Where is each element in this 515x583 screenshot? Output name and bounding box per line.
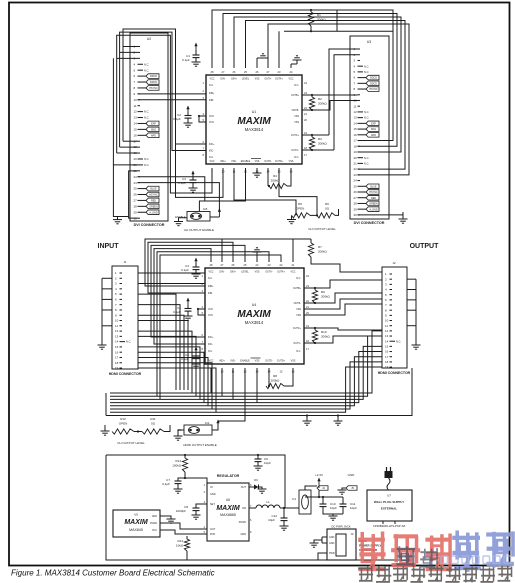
wire power rail loop <box>106 455 412 560</box>
svg-text:VCC: VCC <box>209 160 214 163</box>
svg-text:INC-: INC- <box>209 150 214 153</box>
svg-text:N.C.: N.C. <box>126 340 131 344</box>
svg-text:N.C.: N.C. <box>294 156 299 159</box>
svg-text:MAXIM: MAXIM <box>237 309 271 320</box>
svg-text:J1: J1 <box>123 260 127 264</box>
svg-text:200kΩ: 200kΩ <box>321 335 331 339</box>
svg-text:SNG: SNG <box>151 128 156 131</box>
svg-text:N.C.: N.C. <box>296 277 301 280</box>
svg-text:VCC: VCC <box>209 121 214 124</box>
svg-text:VCC: VCC <box>290 271 295 274</box>
svg-text:DIN+: DIN+ <box>231 78 237 81</box>
svg-text:19: 19 <box>385 365 389 369</box>
resistor R14 10k <box>176 536 190 560</box>
svg-text:DDCD: DDCD <box>150 75 157 78</box>
ground below bundle <box>303 414 312 425</box>
svg-text:J2: J2 <box>392 261 396 265</box>
svg-text:U1: U1 <box>252 110 257 114</box>
svg-text:R3: R3 <box>318 137 322 141</box>
svg-text:PGND: PGND <box>239 521 246 524</box>
svg-text:U2: U2 <box>147 37 151 41</box>
svg-text:DC PWR JACK: DC PWR JACK <box>331 525 350 529</box>
diode D3 <box>249 478 267 493</box>
svg-text:VCC: VCC <box>209 78 214 81</box>
svg-text:11: 11 <box>385 324 388 328</box>
svg-text:HSYNC: HSYNC <box>149 87 158 90</box>
svg-text:EXP: EXP <box>151 123 156 126</box>
svg-text:CH OUTPUT LEVEL: CH OUTPUT LEVEL <box>308 227 336 231</box>
svg-text:11: 11 <box>354 104 357 108</box>
svg-text:ENABLE: ENABLE <box>240 360 250 363</box>
svg-text:11: 11 <box>115 324 118 328</box>
resistor R3 200k <box>302 134 328 151</box>
svg-text:HDMI CONNECTOR: HDMI CONNECTOR <box>109 372 142 376</box>
wire bus left of U2 <box>113 29 223 218</box>
connector U2 DVI <box>130 33 168 227</box>
svg-text:0.1µF: 0.1µF <box>173 117 181 121</box>
svg-text:U7: U7 <box>387 494 391 498</box>
svg-text:SNG: SNG <box>371 128 376 131</box>
svg-text:OUTC-: OUTC- <box>291 149 299 152</box>
svg-text:VSS: VSS <box>255 160 260 163</box>
svg-text:VSS: VSS <box>296 308 301 311</box>
svg-text:U3: U3 <box>367 40 371 44</box>
svg-text:J3: J3 <box>351 532 354 536</box>
svg-text:HSYNC: HSYNC <box>369 191 378 194</box>
svg-text:10: 10 <box>115 319 119 323</box>
svg-text:VSS: VSS <box>294 121 299 124</box>
svg-text:U4: U4 <box>252 303 257 307</box>
LED D1 <box>292 486 317 514</box>
svg-text:DIN-: DIN- <box>220 271 225 274</box>
svg-text:APD: APD <box>371 134 376 137</box>
svg-text:26: 26 <box>354 190 358 194</box>
svg-text:GND: GND <box>348 473 356 477</box>
svg-text:A_GND: A_GND <box>369 208 378 211</box>
wire return bundle <box>110 331 382 412</box>
resistor R9 200k <box>304 287 331 304</box>
resistor R6 0ohm <box>310 202 339 218</box>
ground above U1 right <box>291 56 302 68</box>
terminal J5 GND <box>338 473 358 494</box>
svg-text:17: 17 <box>385 355 389 359</box>
connector U3 DVI <box>350 36 389 225</box>
svg-text:SET: SET <box>210 503 215 506</box>
svg-text:Figure 1. MAX3814 Customer Boa: Figure 1. MAX3814 Customer Board Electri… <box>11 569 215 578</box>
svg-text:JU2: JU2 <box>205 421 210 425</box>
svg-text:17: 17 <box>354 139 358 143</box>
ground above U4 <box>253 248 262 262</box>
resistor R7 200k <box>308 239 382 272</box>
plug P1 <box>385 467 393 490</box>
ground at R5 <box>287 215 336 231</box>
svg-text:23: 23 <box>134 175 138 179</box>
svg-text:VSS: VSS <box>255 360 260 363</box>
capacitor C11 10uF <box>329 497 358 520</box>
svg-text:VSS: VSS <box>296 314 301 317</box>
svg-text:27: 27 <box>354 196 358 200</box>
svg-text:+3.3V: +3.3V <box>315 473 323 477</box>
svg-text:CH OUTPUT ENABLE: CH OUTPUT ENABLE <box>184 228 214 232</box>
svg-text:12: 12 <box>354 110 358 114</box>
capacitor C4 0.1uF <box>181 258 200 279</box>
svg-text:N.C.: N.C. <box>296 350 301 353</box>
svg-text:HDMI CONNECTOR: HDMI CONNECTOR <box>378 371 411 375</box>
ground below U3 <box>399 212 408 223</box>
svg-text:DVI CONNECTOR: DVI CONNECTOR <box>134 223 165 227</box>
svg-text:VCC: VCC <box>208 314 213 317</box>
svg-text:HSYNC: HSYNC <box>369 88 378 91</box>
resistor R2 200k <box>302 94 328 111</box>
svg-text:WALL PLUG SUPPLY: WALL PLUG SUPPLY <box>374 500 404 504</box>
svg-text:N.C.: N.C. <box>364 162 369 166</box>
capacitor C2 0.1uF <box>173 106 206 128</box>
svg-text:OUTD+: OUTD+ <box>277 360 286 363</box>
svg-text:OUTD-: OUTD- <box>264 160 272 163</box>
svg-text:MAX8865: MAX8865 <box>220 513 236 517</box>
svg-text:24: 24 <box>134 181 138 185</box>
svg-text:R1: R1 <box>317 13 321 17</box>
svg-text:INPUT: INPUT <box>98 243 120 250</box>
svg-text:15: 15 <box>115 345 119 349</box>
svg-text:27: 27 <box>134 199 138 203</box>
resistor R4 200k <box>268 168 291 189</box>
svg-text:REGULATOR: REGULATOR <box>217 474 240 478</box>
svg-text:GREEN: GREEN <box>369 203 378 206</box>
connector J1 HDMI <box>109 260 142 376</box>
svg-text:25: 25 <box>354 184 358 188</box>
capacitor C9 10uF <box>254 454 272 470</box>
resistor R13 100k <box>172 454 187 479</box>
svg-text:N.C.: N.C. <box>396 339 401 343</box>
capacitor C1 0.1uF <box>182 43 200 67</box>
svg-text:OUTPUT: OUTPUT <box>410 243 440 250</box>
svg-text:200kΩ: 200kΩ <box>318 102 328 106</box>
svg-text:IND+: IND+ <box>220 160 226 163</box>
svg-text:19: 19 <box>115 366 119 370</box>
svg-text:14: 14 <box>134 122 138 126</box>
svg-text:200kΩ: 200kΩ <box>271 179 281 183</box>
ground left of J1 <box>98 278 113 349</box>
ground below U2 <box>113 217 122 224</box>
svg-text:IN: IN <box>210 486 213 489</box>
svg-text:ENABLE: ENABLE <box>175 215 186 219</box>
svg-text:VCC: VCC <box>208 271 213 274</box>
svg-text:OUTA-: OUTA- <box>265 271 272 274</box>
svg-text:18: 18 <box>354 144 358 148</box>
svg-text:OUTA-: OUTA- <box>264 78 271 81</box>
svg-text:0.1µF: 0.1µF <box>162 482 170 486</box>
svg-text:18: 18 <box>385 360 389 364</box>
svg-text:29: 29 <box>134 210 138 214</box>
capacitor C10 10uF <box>305 496 343 514</box>
svg-text:10: 10 <box>354 99 358 103</box>
svg-text:0.1µF: 0.1µF <box>178 181 186 185</box>
resistor R10 200k <box>304 327 331 344</box>
svg-text:LEVEL: LEVEL <box>242 78 250 81</box>
svg-text:24: 24 <box>354 179 358 183</box>
wire U5 to rail <box>166 523 207 534</box>
ground below bundle right <box>334 414 343 425</box>
svg-text:R5: R5 <box>298 202 302 206</box>
svg-text:12: 12 <box>134 110 138 114</box>
svg-text:OUTB-: OUTB- <box>292 109 300 112</box>
connector J3 power jack <box>310 525 357 561</box>
svg-text:PGND: PGND <box>150 522 157 525</box>
ground above U1 pin VSS <box>257 54 268 68</box>
svg-text:10kΩ: 10kΩ <box>176 544 184 548</box>
svg-text:25: 25 <box>134 187 138 191</box>
svg-text:22: 22 <box>354 167 358 171</box>
svg-text:20: 20 <box>134 157 138 161</box>
svg-text:MAX3814: MAX3814 <box>245 320 264 325</box>
wire J1 to U4 <box>138 273 216 412</box>
svg-text:28: 28 <box>354 202 358 206</box>
svg-text:0.1µF: 0.1µF <box>182 58 190 62</box>
inductor L1 <box>249 500 296 509</box>
svg-text:HSYNC: HSYNC <box>149 194 158 197</box>
svg-text:INB+: INB+ <box>209 92 215 95</box>
svg-text:17: 17 <box>115 356 119 360</box>
svg-text:10: 10 <box>134 98 138 102</box>
svg-text:14: 14 <box>354 121 358 125</box>
svg-text:12: 12 <box>385 329 389 333</box>
capacitor C6 0.1uF <box>181 347 200 369</box>
svg-text:OUTC+: OUTC+ <box>291 134 300 137</box>
svg-text:POK: POK <box>210 533 216 536</box>
svg-text:OUT: OUT <box>210 528 216 531</box>
svg-text:200kΩ: 200kΩ <box>321 295 331 299</box>
svg-text:R12: R12 <box>120 417 126 421</box>
svg-text:U6: U6 <box>226 498 230 502</box>
svg-text:OUTC-: OUTC- <box>293 342 301 345</box>
svg-text:A_GND: A_GND <box>149 211 158 214</box>
svg-text:14: 14 <box>385 339 389 343</box>
svg-text:MAXIM: MAXIM <box>216 505 240 512</box>
wire U4 to J2 <box>304 280 382 343</box>
svg-text:VSS: VSS <box>289 160 294 163</box>
svg-text:12: 12 <box>115 329 119 333</box>
svg-text:100kΩ: 100kΩ <box>172 464 182 468</box>
svg-text:DVI CONNECTOR: DVI CONNECTOR <box>354 221 385 225</box>
svg-text:N.C.: N.C. <box>294 84 299 87</box>
svg-text:VSS: VSS <box>294 115 299 118</box>
svg-text:DDCD: DDCD <box>370 82 377 85</box>
svg-text:INB-: INB- <box>208 292 213 295</box>
jumper JU2 HDMI OUTPUT ENABLE <box>174 420 220 448</box>
svg-text:10µF: 10µF <box>268 518 275 522</box>
svg-text:OPEN: OPEN <box>119 422 128 426</box>
svg-text:N.C.: N.C. <box>144 157 149 161</box>
svg-text:BLUE: BLUE <box>370 185 377 188</box>
svg-text:R4: R4 <box>273 174 277 178</box>
resistor R8 200k <box>266 368 293 389</box>
svg-text:MAX845: MAX845 <box>129 528 143 532</box>
svg-text:R8: R8 <box>273 374 277 378</box>
wire top loop from U1 to U3 <box>212 10 409 99</box>
svg-text:GND: GND <box>329 536 335 539</box>
svg-text:DDCD: DDCD <box>150 81 157 84</box>
svg-text:OUTB+: OUTB+ <box>293 287 302 290</box>
svg-text:GND: GND <box>210 493 216 496</box>
svg-text:29: 29 <box>354 207 358 211</box>
wire U1 bottom pins <box>234 168 317 215</box>
svg-text:19: 19 <box>354 150 358 154</box>
svg-text:D1: D1 <box>292 497 296 501</box>
svg-text:INB-: INB- <box>209 99 214 102</box>
svg-text:VCC: VCC <box>152 529 157 532</box>
svg-text:EXTERNAL: EXTERNAL <box>381 507 397 511</box>
svg-text:200kΩ: 200kΩ <box>271 379 281 383</box>
svg-text:1000pF: 1000pF <box>176 509 186 513</box>
svg-text:U5: U5 <box>134 513 138 517</box>
svg-text:VSS: VSS <box>255 271 260 274</box>
svg-text:N.C.: N.C. <box>209 156 214 159</box>
svg-text:DDCD: DDCD <box>370 77 377 80</box>
svg-text:VCC: VCC <box>288 78 293 81</box>
svg-text:OUTC+: OUTC+ <box>293 327 302 330</box>
svg-text:R11: R11 <box>150 417 156 421</box>
svg-text:LEVEL: LEVEL <box>241 271 249 274</box>
op-amp U1 MAX3814 <box>203 70 308 174</box>
svg-text:OUTA+: OUTA+ <box>277 271 285 274</box>
svg-text:OUTB+: OUTB+ <box>291 94 300 97</box>
svg-text:DIN-: DIN- <box>221 78 226 81</box>
resistor R5 OPEN <box>292 202 311 218</box>
svg-text:MAXIM: MAXIM <box>237 116 271 127</box>
svg-text:N.C.: N.C. <box>144 116 149 120</box>
svg-text:APD: APD <box>151 134 156 137</box>
ground right of J2 <box>407 279 421 349</box>
capacitor C3 0.1uF <box>178 171 197 193</box>
svg-text:D3: D3 <box>254 478 258 482</box>
svg-text:15: 15 <box>134 127 138 131</box>
svg-text:13: 13 <box>385 334 389 338</box>
wire U4 bottom pins <box>211 368 257 421</box>
svg-text:18: 18 <box>115 361 119 365</box>
svg-text:EXP: EXP <box>371 122 376 125</box>
label WALL POWER SUPPLY CONNECTOR <box>359 539 381 552</box>
svg-text:IND-: IND- <box>231 360 236 363</box>
svg-text:CP30B3000-LPS-PSP-SZ: CP30B3000-LPS-PSP-SZ <box>373 524 406 528</box>
svg-text:IND+: IND+ <box>219 360 225 363</box>
svg-text:23: 23 <box>354 173 358 177</box>
svg-text:14: 14 <box>115 340 119 344</box>
svg-text:21: 21 <box>354 162 358 166</box>
svg-text:R14: R14 <box>177 539 183 543</box>
svg-text:MAXIM: MAXIM <box>124 519 148 526</box>
svg-text:VCC: VCC <box>208 360 213 363</box>
svg-text:26: 26 <box>134 193 138 197</box>
svg-text:GREEN: GREEN <box>149 205 158 208</box>
svg-text:BLUE: BLUE <box>150 188 157 191</box>
svg-text:13: 13 <box>354 116 358 120</box>
regulator U6 MAX8865 <box>204 474 252 541</box>
svg-text:IN2: IN2 <box>242 507 247 510</box>
svg-text:JU5: JU5 <box>203 207 208 211</box>
svg-text:INB+: INB+ <box>208 285 214 288</box>
svg-text:N.C.: N.C. <box>144 110 149 114</box>
capacitor C5 0.1uF <box>173 298 205 321</box>
svg-text:10µF: 10µF <box>264 461 271 465</box>
svg-text:R13: R13 <box>175 459 181 463</box>
svg-text:OUTB-: OUTB- <box>294 302 302 305</box>
power supply U7 <box>367 490 412 528</box>
svg-text:16: 16 <box>385 350 389 354</box>
svg-text:200kΩ: 200kΩ <box>317 18 327 22</box>
svg-text:GND: GND <box>152 515 158 518</box>
svg-text:0.1µF: 0.1µF <box>181 268 189 272</box>
wire U1 outputs to U3 <box>312 95 358 150</box>
svg-text:N.C.: N.C. <box>209 84 214 87</box>
resistor R11 0ohm <box>117 417 170 445</box>
svg-text:N.C.: N.C. <box>364 110 369 114</box>
svg-text:16: 16 <box>115 350 119 354</box>
jumper JU1 CH OUTPUT ENABLE <box>174 168 246 232</box>
svg-text:GND: GND <box>329 542 335 545</box>
svg-text:VSS: VSS <box>255 78 260 81</box>
svg-text:N.C.: N.C. <box>144 163 149 167</box>
svg-text:R10: R10 <box>321 330 327 334</box>
svg-text:RED: RED <box>151 200 156 203</box>
svg-text:DIN+: DIN+ <box>230 271 236 274</box>
watermark <box>358 531 515 583</box>
svg-text:10µF: 10µF <box>350 506 357 510</box>
svg-text:N.C.: N.C. <box>144 68 149 72</box>
svg-text:R2: R2 <box>318 97 322 101</box>
svg-text:GND: GND <box>240 533 246 536</box>
svg-text:ENABLE: ENABLE <box>241 160 251 163</box>
svg-text:N.C.: N.C. <box>364 156 369 160</box>
ground right of U5 <box>166 516 176 523</box>
resistor R1 200k <box>284 9 393 32</box>
resistor R12 OPEN <box>101 417 135 435</box>
svg-text:15: 15 <box>385 344 389 348</box>
svg-text:R7: R7 <box>318 245 322 249</box>
svg-text:10: 10 <box>385 319 389 323</box>
svg-text:OPEN: OPEN <box>296 207 305 211</box>
svg-text:L1: L1 <box>266 500 270 504</box>
svg-text:R6: R6 <box>325 202 329 206</box>
svg-text:VCC: VCC <box>208 308 213 311</box>
svg-text:N.C.: N.C. <box>364 64 369 68</box>
svg-text:MAX3814: MAX3814 <box>245 127 264 132</box>
op-amp U4 MAX3814 <box>202 263 310 374</box>
svg-text:16: 16 <box>134 133 138 137</box>
svg-text:20: 20 <box>354 156 358 160</box>
svg-text:15: 15 <box>354 127 358 131</box>
svg-text:VSS: VSS <box>291 360 296 363</box>
svg-text:11: 11 <box>134 104 137 108</box>
wire loop into U4 top <box>145 239 311 399</box>
svg-text:200kΩ: 200kΩ <box>318 250 328 254</box>
svg-text:N.C.: N.C. <box>208 350 213 353</box>
svg-text:OUTD+: OUTD+ <box>275 160 284 163</box>
svg-text:OUTD-: OUTD- <box>265 360 273 363</box>
svg-text:16: 16 <box>354 133 358 137</box>
capacitor C12 10uF <box>268 508 288 530</box>
svg-text:N.C.: N.C. <box>144 62 149 66</box>
svg-text:13: 13 <box>134 116 138 120</box>
svg-text:RED: RED <box>371 197 376 200</box>
svg-text:VCC: VCC <box>209 115 214 118</box>
svg-text:CH OUTPUT LEVEL: CH OUTPUT LEVEL <box>117 441 145 445</box>
svg-text:PWR: PWR <box>329 552 335 555</box>
svg-text:N.C.: N.C. <box>364 70 369 74</box>
terminal J4 +3.3V <box>315 473 328 497</box>
wire outer loop bottom <box>106 368 412 416</box>
svg-text:N.C.: N.C. <box>364 116 369 120</box>
